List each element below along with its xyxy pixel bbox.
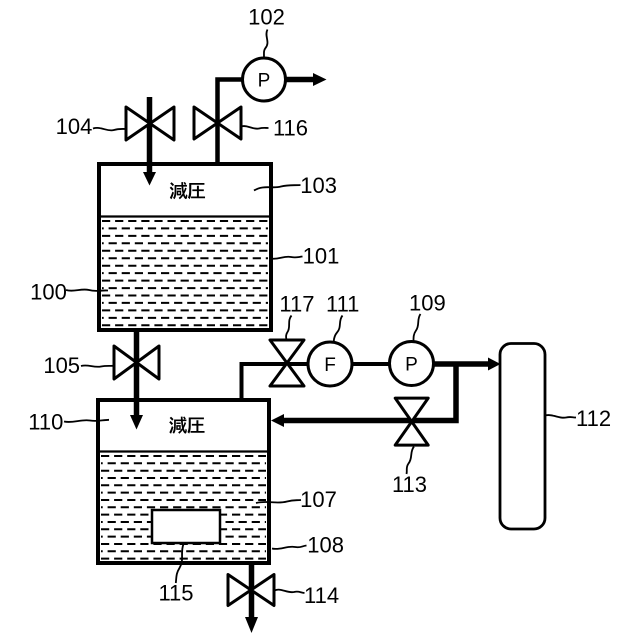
svg-text:P: P: [258, 71, 271, 92]
svg-text:101: 101: [303, 244, 340, 269]
svg-text:F: F: [324, 355, 336, 376]
svg-text:102: 102: [248, 5, 285, 30]
svg-text:100: 100: [30, 280, 67, 305]
svg-text:107: 107: [300, 487, 337, 512]
svg-text:109: 109: [409, 291, 446, 316]
svg-text:111: 111: [326, 292, 359, 317]
svg-text:117: 117: [279, 292, 314, 317]
svg-text:112: 112: [576, 406, 611, 431]
svg-text:108: 108: [307, 532, 344, 557]
svg-text:105: 105: [43, 353, 80, 378]
svg-text:113: 113: [392, 472, 427, 497]
svg-text:104: 104: [56, 114, 93, 139]
svg-text:103: 103: [300, 173, 337, 198]
svg-text:110: 110: [28, 410, 63, 435]
svg-text:115: 115: [158, 580, 193, 605]
svg-text:114: 114: [304, 583, 339, 608]
svg-text:P: P: [405, 355, 418, 376]
svg-text:116: 116: [273, 116, 308, 141]
